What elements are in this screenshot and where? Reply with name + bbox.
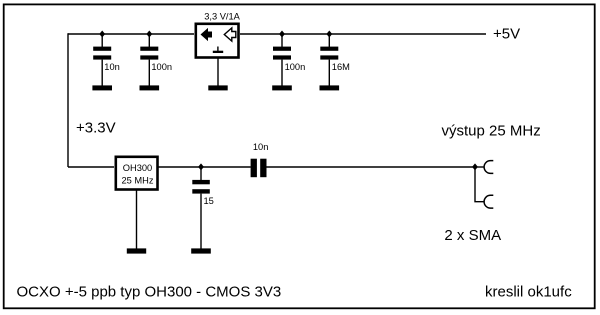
svg-text:16M: 16M <box>332 62 350 72</box>
svg-text:OH300: OH300 <box>123 163 152 173</box>
ground under OH300 <box>127 248 146 253</box>
svg-text:10n: 10n <box>104 62 120 72</box>
wire OH300 ground pin <box>136 190 138 249</box>
wire left vertical +3.3V drop <box>67 33 69 167</box>
svg-text:100n: 100n <box>151 62 172 72</box>
connector SMA 1 <box>484 161 493 174</box>
wire junction down to SMA 2 <box>475 167 484 202</box>
svg-text:výstup 25 MHz: výstup 25 MHz <box>442 123 541 140</box>
ground under C2 <box>140 85 160 90</box>
wire top +5V rail left segment <box>68 33 194 35</box>
svg-text:25 MHz: 25 MHz <box>121 176 153 186</box>
oscillator U2 OH300 25 MHz <box>116 157 158 190</box>
svg-text:kreslil ok1ufc: kreslil ok1ufc <box>485 284 572 301</box>
wire regulator ground pin <box>217 58 219 86</box>
capacitor C2 100n <box>140 34 158 86</box>
svg-text:100n: 100n <box>285 62 306 72</box>
wire into OH300 left pin <box>68 166 114 168</box>
wire OH300 output to junction <box>159 166 251 168</box>
ground under C1 <box>92 85 112 90</box>
svg-text:10n: 10n <box>253 142 269 152</box>
svg-text:2 x SMA: 2 x SMA <box>444 227 501 244</box>
svg-text:15: 15 <box>204 196 214 206</box>
capacitor C5 15 <box>192 167 210 249</box>
ground under C5 <box>191 248 211 253</box>
svg-text:+3.3V: +3.3V <box>76 119 116 136</box>
ground under regulator <box>208 85 227 90</box>
svg-text:+5V: +5V <box>493 26 520 43</box>
node junction on rail at C3 <box>279 31 285 38</box>
connector SMA 2 <box>484 195 493 208</box>
svg-text:OCXO +-5 ppb typ OH300 - CMOS: OCXO +-5 ppb typ OH300 - CMOS 3V3 <box>17 283 282 300</box>
ground under C3 <box>272 85 292 90</box>
capacitor C4 16M <box>320 34 338 86</box>
node junction at C5 <box>198 163 204 170</box>
wire junction to SMA 1 <box>475 166 484 168</box>
wire output to SMA junction <box>267 166 476 168</box>
node junction on rail at C1 <box>99 31 105 38</box>
node junction on rail at C4 <box>326 31 332 38</box>
node output junction <box>472 163 478 170</box>
svg-text:3,3 V/1A: 3,3 V/1A <box>204 12 240 22</box>
capacitor C3 100n <box>273 34 291 86</box>
node junction on rail at C2 <box>146 31 152 38</box>
ground under C4 <box>320 85 340 90</box>
capacitor C1 10n <box>93 34 111 86</box>
capacitor C6 10n series <box>251 159 267 178</box>
voltage regulator U1 3,3 V/1A <box>196 24 239 58</box>
wire top +5V rail right segment <box>240 33 486 35</box>
